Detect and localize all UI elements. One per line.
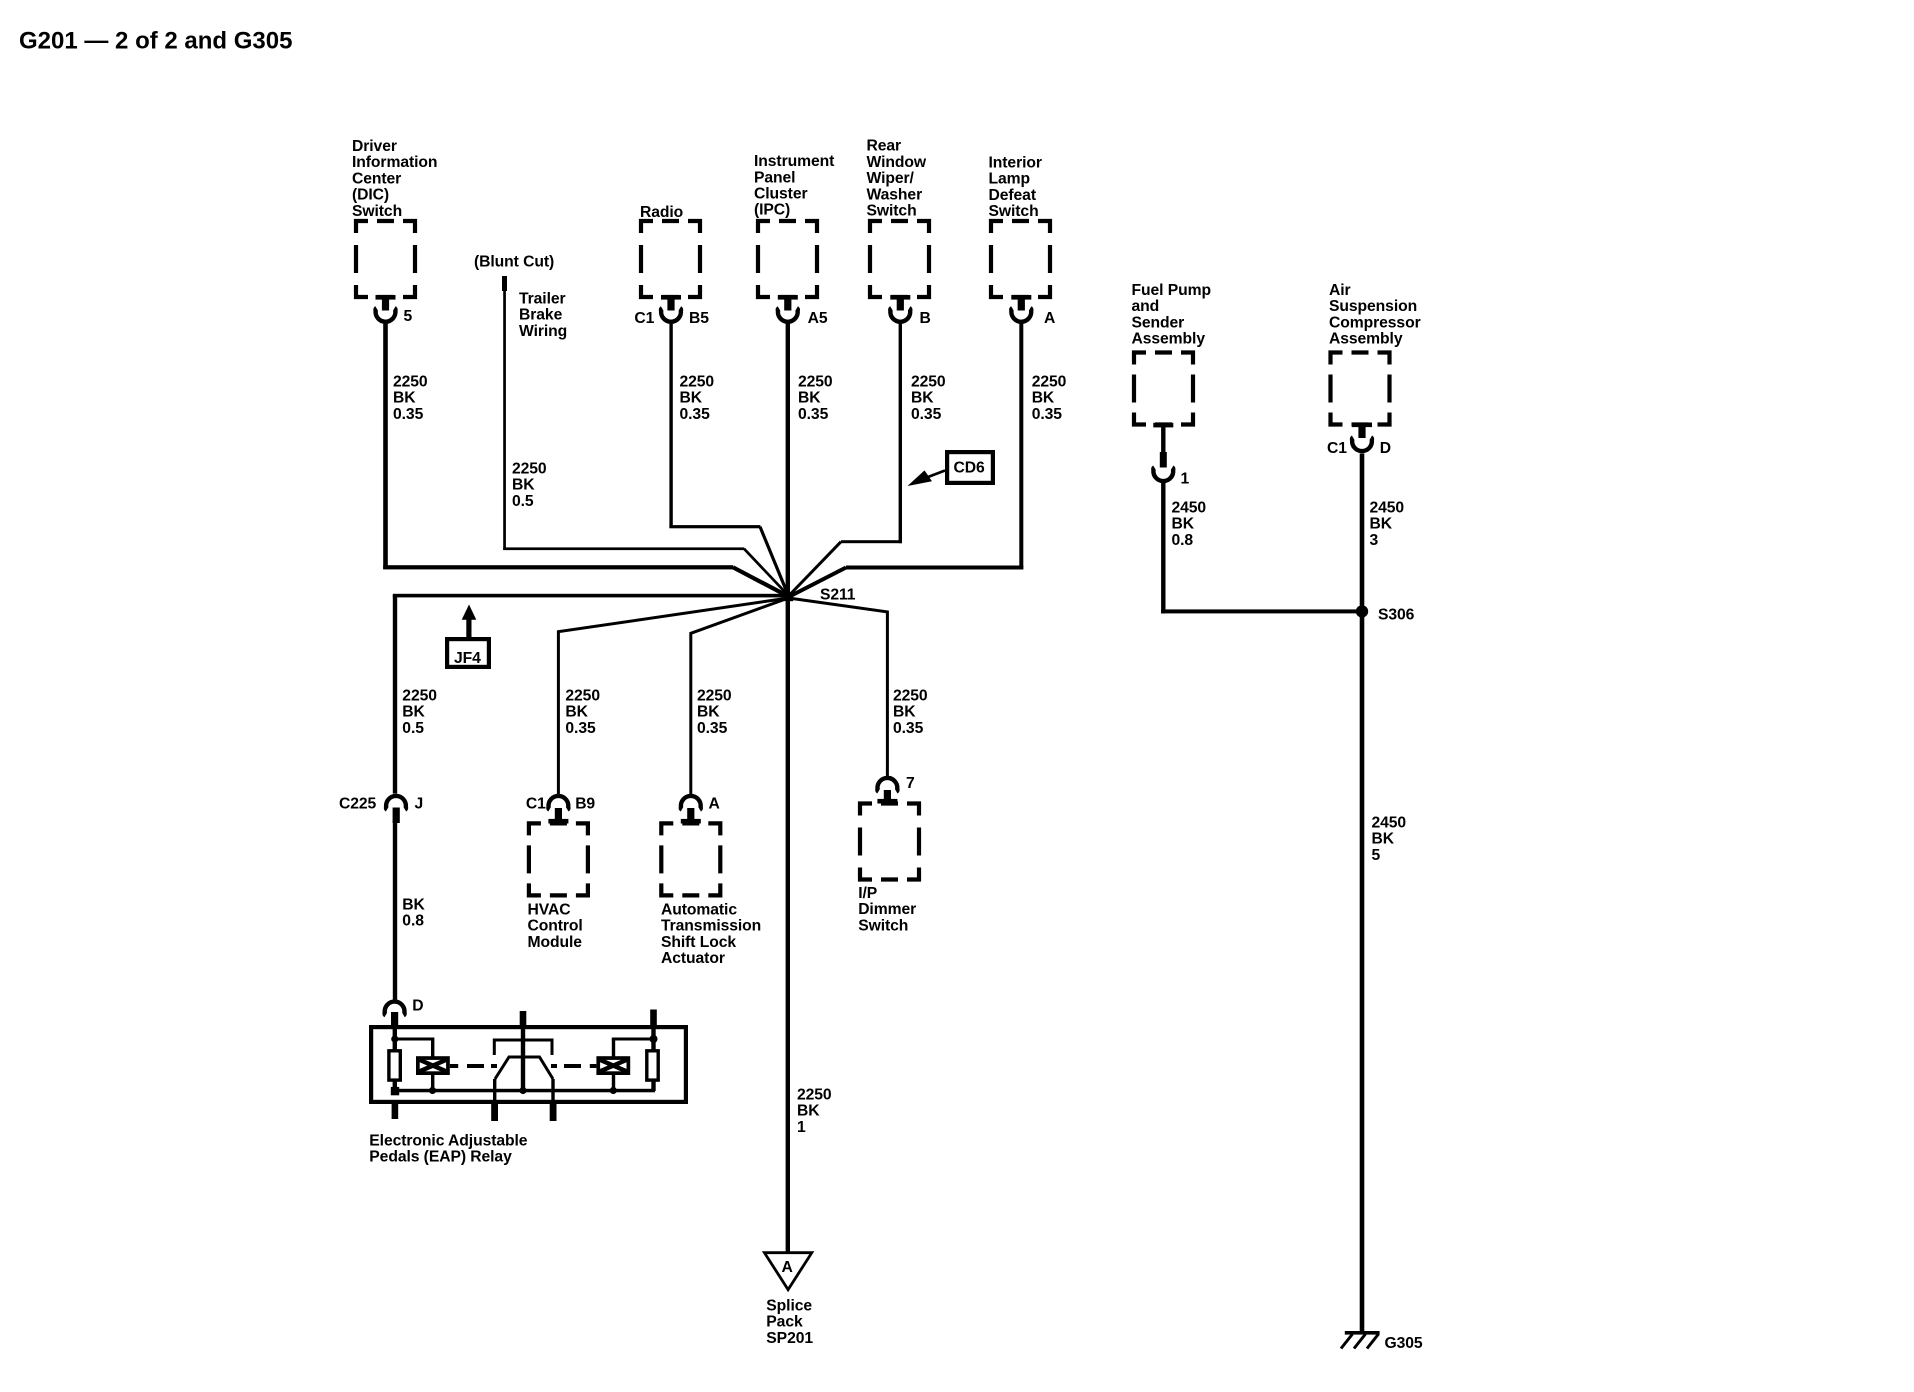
connector pin 5 of DIC Switch: [376, 295, 396, 311]
svg-text:D: D: [412, 998, 423, 1015]
relay stub top right: [650, 1010, 657, 1028]
svg-text:BK0.8: BK0.8: [402, 896, 425, 929]
component DIC Switch dashed box: [356, 221, 415, 297]
connector C225 J: [386, 796, 406, 810]
svg-text:7: 7: [906, 775, 915, 792]
wire trailer brake (blunt cut tip): [502, 276, 507, 291]
connector D of EAP relay: [385, 1002, 405, 1016]
connector pin B of RW switch: [890, 295, 910, 311]
svg-text:G305: G305: [1385, 1335, 1423, 1352]
svg-text:JF4: JF4: [454, 650, 481, 667]
component Air Suspension dashed box: [1331, 353, 1390, 425]
CD6 callout arrow: [926, 471, 945, 478]
CD6 box: [947, 452, 993, 483]
contact box 2 (crossed): [596, 1056, 630, 1075]
wire armature right leg: [551, 1079, 554, 1101]
svg-text:A: A: [1044, 310, 1055, 327]
svg-text:C1: C1: [1327, 440, 1347, 457]
wire S211 to Shift Lock Actuator: [691, 598, 789, 794]
wire contact 2 to bottom rail: [612, 1075, 615, 1091]
wire S211 to HVAC: [558, 598, 788, 794]
svg-text:InteriorLampDefeatSwitch: InteriorLampDefeatSwitch: [989, 154, 1042, 220]
relay bottom rail: [391, 1089, 655, 1093]
svg-text:C225: C225: [339, 795, 377, 812]
svg-text:S306: S306: [1378, 607, 1415, 624]
component I/P Dimmer dashed box: [860, 804, 919, 880]
JF4 box: [447, 639, 489, 667]
svg-text:C1: C1: [634, 310, 654, 327]
component Shift Lock dashed box: [661, 823, 720, 895]
dashes right: [551, 1064, 557, 1068]
relay coil resistor right: [647, 1051, 658, 1080]
component RW switch dashed box: [870, 221, 929, 297]
connector pin A5 of IPC: [778, 295, 798, 311]
wire contact 2 top to right pin: [612, 1039, 615, 1057]
wire Radio to S211: [669, 324, 672, 529]
component Radio dashed box: [641, 221, 700, 297]
svg-text:J: J: [415, 795, 424, 812]
relay center pin vertical: [521, 1027, 525, 1091]
wire DIC switch to S211: [383, 324, 388, 570]
wire Air Suspension to G305: [1360, 454, 1365, 1334]
svg-text:A5: A5: [808, 310, 828, 327]
component Fuel Pump dashed box: [1134, 353, 1193, 425]
svg-text:D: D: [1380, 440, 1391, 457]
connector 7 of I/P Dimmer: [877, 778, 897, 792]
svg-text:Radio: Radio: [640, 204, 683, 221]
connector pin C1/B5 of Radio: [661, 295, 681, 311]
connector A of Shift Lock: [681, 796, 701, 810]
connector pin C1/D of Air Suspension: [1352, 423, 1372, 439]
relay armature bracket: [494, 1040, 552, 1055]
connector C1 B9 of HVAC: [548, 796, 568, 810]
component HVAC Control Module dashed box: [529, 823, 588, 895]
relay stub bottom center-left: [491, 1101, 498, 1121]
wire IPC down through S211 to splice pack: [786, 324, 790, 1254]
svg-text:G201 — 2 of 2 and G305: G201 — 2 of 2 and G305: [19, 28, 292, 55]
svg-text:A: A: [782, 1259, 793, 1276]
relay right pin vertical: [651, 1027, 655, 1051]
svg-text:5: 5: [404, 308, 413, 325]
node dot on D vertical: [391, 1035, 398, 1042]
wire RW switch to S211: [899, 324, 902, 544]
relay coil resistor left: [389, 1051, 400, 1080]
wire resistor right to rail: [651, 1080, 655, 1091]
splice pack SP201 triangle A: [764, 1253, 811, 1290]
svg-text:B5: B5: [689, 310, 709, 327]
svg-text:B: B: [920, 310, 931, 327]
EAP relay box: [371, 1027, 686, 1102]
splice S306: [1356, 605, 1368, 617]
svg-text:C1: C1: [526, 795, 546, 812]
svg-text:A: A: [709, 795, 720, 812]
wire C225 to EAP relay: [393, 819, 397, 1000]
relay stub top center: [520, 1011, 527, 1027]
svg-text:TrailerBrakeWiring: TrailerBrakeWiring: [519, 290, 567, 339]
wire Fuel Pump to S306: [1161, 482, 1165, 614]
wire IL switch to S211: [1019, 324, 1023, 570]
wire contact 1 to bottom rail: [431, 1075, 434, 1091]
wire node to contact 1: [395, 1038, 433, 1041]
svg-text:S211: S211: [820, 587, 856, 604]
connector pin A of IL switch: [1011, 295, 1031, 311]
dashes left: [450, 1064, 458, 1068]
svg-text:(Blunt Cut): (Blunt Cut): [474, 254, 554, 271]
ground G305: [1345, 1331, 1380, 1335]
wire D pin vertical: [393, 1027, 397, 1093]
wire S211 to C225 (JF4 line): [393, 594, 789, 598]
JF4 callout arrow: [462, 605, 477, 620]
wire S211 to I/P Dimmer Switch: [789, 598, 888, 776]
connector pin 1 of Fuel Pump: [1153, 423, 1173, 428]
component IPC dashed box: [758, 221, 817, 297]
contact box 1 (crossed): [416, 1056, 450, 1075]
svg-text:CD6: CD6: [954, 460, 985, 477]
relay armature trapezoid: [495, 1057, 553, 1079]
component IL switch dashed box: [991, 221, 1050, 297]
relay stub bottom left (D): [392, 1101, 399, 1119]
svg-text:B9: B9: [575, 795, 595, 812]
svg-text:Electronic AdjustablePedals (E: Electronic AdjustablePedals (EAP) Relay: [369, 1132, 527, 1165]
splice S211: [785, 593, 794, 602]
svg-text:1: 1: [1181, 471, 1190, 488]
wire armature left leg: [493, 1079, 496, 1101]
relay stub bottom center-right: [550, 1101, 557, 1121]
